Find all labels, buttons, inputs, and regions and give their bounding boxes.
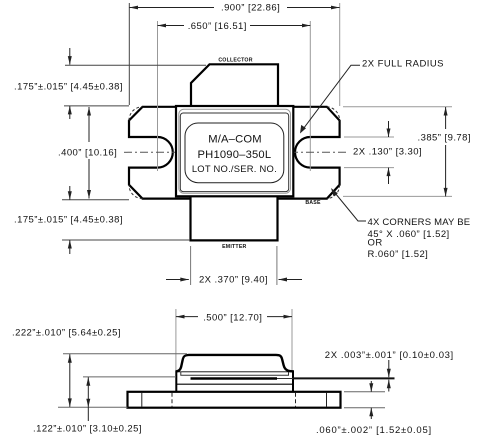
svg-text:M/A–COM: M/A–COM bbox=[208, 134, 262, 146]
svg-text:.400” [10.16]: .400” [10.16] bbox=[58, 148, 117, 159]
dimension .122 vertical line bbox=[87, 377, 89, 421]
svg-text:2X .003”±.001” [0.10±0.03]: 2X .003”±.001” [0.10±0.03] bbox=[325, 350, 454, 361]
lead extension line right bbox=[293, 377, 395, 379]
dimension 2X .003 down arrow bbox=[388, 360, 390, 377]
emitter lead bbox=[191, 196, 278, 240]
svg-text:PH1090–350L: PH1090–350L bbox=[198, 149, 272, 161]
svg-text:OR: OR bbox=[368, 238, 383, 249]
side lead thin line to body edge bbox=[277, 378, 293, 380]
cap surface rounded rect bbox=[180, 113, 288, 192]
upper .175 extension line (flange top) bbox=[64, 105, 129, 107]
label COLLECTOR bbox=[218, 58, 252, 64]
dimension 2X .003 up arrow bbox=[388, 380, 390, 392]
cap text frame rounded rect bbox=[185, 123, 284, 183]
svg-text:.175”±.015” [4.45±0.38]: .175”±.015” [4.45±0.38] bbox=[14, 82, 123, 93]
lower .175 up arrow bbox=[69, 240, 71, 254]
lower .175 extension line (flange bottom) bbox=[62, 199, 129, 201]
corner dashed arc R.060 top-left bbox=[129, 107, 143, 121]
centerline horizontal left slot bbox=[124, 151, 180, 153]
dimension .500 extension lines bbox=[175, 309, 177, 370]
note 2X FULL RADIUS leader bbox=[302, 65, 360, 130]
dimension .060 down arrow bbox=[370, 381, 372, 392]
dimension .385 extension lines bbox=[343, 106, 452, 108]
side body frame line bbox=[176, 383, 293, 385]
upper .175 extension line (lead top) bbox=[65, 64, 206, 66]
corner dashed arc R.060 top-right bbox=[327, 107, 340, 121]
dimension .060 up arrow bbox=[370, 408, 372, 419]
corner dashed arc R.060 bottom-right bbox=[327, 185, 340, 199]
dimension .385 vertical line bbox=[445, 107, 447, 129]
svg-text:EMITTER: EMITTER bbox=[222, 244, 246, 250]
dimension .400 vertical line bbox=[88, 107, 90, 142]
side flange chamfer edge right bbox=[326, 393, 328, 407]
extension line flange right top bbox=[339, 3, 341, 106]
label EMITTER bbox=[222, 244, 246, 250]
svg-text:2X .370” [9.40]: 2X .370” [9.40] bbox=[199, 275, 268, 286]
lower .175 down arrow bbox=[69, 186, 71, 200]
upper .175 up arrow bbox=[69, 106, 71, 119]
dimension 2X .130 extension lines bbox=[344, 136, 394, 138]
side body box bbox=[176, 371, 293, 392]
cap outer rectangle bbox=[176, 106, 293, 196]
extension line flange left top bbox=[128, 3, 130, 105]
svg-text:4X CORNERS MAY BE: 4X CORNERS MAY BE bbox=[368, 217, 471, 228]
flange outline (top view) bbox=[129, 107, 340, 199]
svg-text:.122”±.010” [3.10±0.25]: .122”±.010” [3.10±0.25] bbox=[33, 423, 142, 434]
corner dashed arc R.060 bottom-left bbox=[129, 185, 143, 199]
dimension .222 vertical line bbox=[69, 354, 71, 407]
svg-text:R.060” [1.52]: R.060” [1.52] bbox=[368, 249, 429, 260]
dimension 2X .130 up arrow bbox=[388, 168, 390, 184]
svg-text:.222”±.010” [5.64±0.25]: .222”±.010” [5.64±0.25] bbox=[12, 328, 121, 339]
centerline vertical left slot bbox=[157, 21, 159, 171]
side flange chamfer edge left bbox=[141, 393, 143, 407]
svg-text:.060”±.002” [1.52±0.05]: .060”±.002” [1.52±0.05] bbox=[316, 425, 432, 436]
label BASE bbox=[305, 200, 321, 206]
svg-text:COLLECTOR: COLLECTOR bbox=[218, 58, 252, 64]
note 4X CORNERS leader bbox=[333, 191, 366, 222]
dimension .650 line bbox=[158, 25, 185, 27]
svg-text:2X .130” [3.30]: 2X .130” [3.30] bbox=[353, 147, 422, 158]
side flange slot hidden line left bbox=[171, 393, 173, 407]
dimension 2X .370 arrows bbox=[166, 279, 189, 281]
svg-text:.650” [16.51]: .650” [16.51] bbox=[188, 21, 247, 32]
lower .175 extension line (lead bottom) bbox=[62, 239, 190, 241]
side lead band bbox=[191, 377, 278, 379]
dimension .500 line bbox=[176, 316, 198, 318]
side flange rectangle bbox=[128, 392, 341, 408]
svg-text:.385” [9.78]: .385” [9.78] bbox=[418, 133, 471, 144]
dimension .222 extension (flange bottom left) bbox=[58, 406, 128, 408]
svg-text:.500” [12.70]: .500” [12.70] bbox=[203, 313, 262, 324]
dimension .900 line bbox=[129, 7, 214, 9]
dimension .122 extension (lead plane) bbox=[83, 376, 176, 378]
dimension .060 extension lines bbox=[344, 391, 385, 393]
cap lip (gray inner) bbox=[179, 109, 291, 193]
side body lip line bbox=[181, 371, 289, 375]
dimension 2X .130 down arrow bbox=[388, 121, 390, 137]
centerline horizontal right slot bbox=[290, 151, 346, 153]
svg-text:2X FULL RADIUS: 2X FULL RADIUS bbox=[362, 59, 444, 70]
svg-text:.900” [22.86]: .900” [22.86] bbox=[221, 2, 280, 13]
upper .175 down arrow bbox=[69, 48, 71, 65]
svg-text:.175”±.015” [4.45±0.38]: .175”±.015” [4.45±0.38] bbox=[14, 215, 123, 226]
dimension 2X .370 extension lines bbox=[190, 246, 192, 285]
side flange slot hidden line right bbox=[295, 393, 297, 407]
dimension .222 extension (cap top) bbox=[63, 353, 187, 355]
side cap profile bbox=[176, 355, 293, 372]
svg-text:BASE: BASE bbox=[305, 200, 321, 206]
collector lead bbox=[191, 64, 278, 106]
svg-text:LOT NO./SER. NO.: LOT NO./SER. NO. bbox=[192, 163, 277, 174]
centerline vertical right slot bbox=[309, 21, 311, 171]
